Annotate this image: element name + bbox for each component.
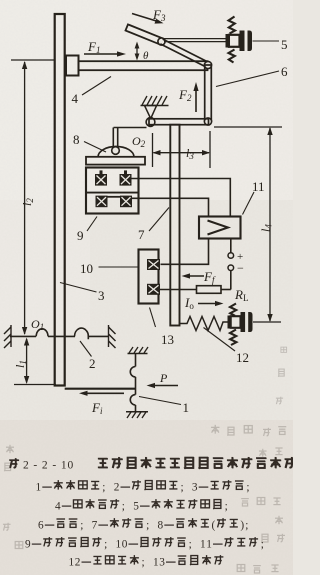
svg-text:;: ; [245, 520, 248, 532]
link bar J1-J2 [163, 39, 210, 63]
wire - terminal down [230, 271, 232, 290]
lever arm 4 [79, 61, 208, 70]
F1 arrow [84, 53, 120, 55]
screw hatch top [229, 17, 236, 34]
svg-text:−: − [237, 261, 244, 275]
svg-text:3: 3 [192, 482, 198, 494]
svg-text:2 - 2 - 10: 2 - 2 - 10 [23, 460, 74, 472]
resistor RL [197, 286, 222, 294]
joint J1 [158, 38, 165, 45]
pivot O2 circle [146, 118, 155, 127]
zero screw [228, 316, 231, 329]
svg-text:1: 1 [183, 400, 190, 415]
wire transformer bottom to amplifier [132, 198, 209, 216]
secondary lever 7 : vertical arm [170, 125, 179, 326]
svg-text:2: 2 [89, 356, 96, 371]
l3 left tick [152, 133, 154, 167]
l2 dimension line [24, 62, 26, 334]
secondary lever 7 : right bar [149, 119, 209, 125]
l3 dimension line [154, 152, 210, 154]
secondary lever 7 : left arm [114, 127, 147, 129]
svg-text:0: 0 [122, 539, 128, 551]
seal diaphragm bump right (2) [75, 328, 89, 339]
svg-text:;: ; [142, 557, 145, 569]
joint J3 [204, 118, 211, 125]
diaphragm bottom anchor hatch [126, 411, 148, 413]
armature hanger link [112, 128, 114, 149]
Fi arrow [84, 392, 124, 394]
armature dome 8 [98, 147, 134, 158]
armature plate [86, 157, 145, 165]
svg-text:1: 1 [69, 557, 75, 569]
zero spring 12 [180, 317, 228, 331]
svg-text:2: 2 [75, 557, 81, 569]
svg-text:;: ; [225, 501, 228, 513]
range adjusting screw 5 [226, 34, 229, 48]
svg-text:;: ; [246, 482, 249, 494]
svg-text:3: 3 [159, 557, 165, 569]
pivot O2 triangle [145, 106, 157, 119]
svg-text:6: 6 [281, 64, 288, 79]
svg-text:13: 13 [161, 332, 174, 347]
l4 bottom tick [253, 321, 281, 323]
svg-text:): ) [240, 520, 244, 532]
svg-text:θ: θ [143, 50, 149, 62]
Io arrow [198, 303, 219, 305]
left wall hatch [4, 325, 11, 348]
svg-text:1: 1 [36, 482, 42, 494]
svg-text:8: 8 [73, 132, 80, 147]
seal diaphragm bump left [36, 329, 48, 337]
zero screw hatch top [230, 304, 236, 316]
O1 baseline [10, 335, 36, 337]
svg-text:7: 7 [92, 520, 98, 532]
svg-text:3: 3 [98, 288, 105, 303]
pivot O2 support hatch [142, 96, 167, 105]
screw hatch bottom [229, 50, 235, 63]
svg-text:;: ; [104, 539, 107, 551]
theta dimension [136, 44, 138, 58]
ghost bleed-through marks [3, 347, 287, 573]
svg-text:10: 10 [80, 261, 93, 276]
l1 bottom tick [14, 384, 56, 386]
svg-text:;: ; [261, 539, 264, 551]
wire transformer top to amplifier [132, 179, 231, 217]
+ terminal [228, 253, 234, 259]
svg-text:;: ; [189, 539, 192, 551]
zero screw hatch bottom [230, 330, 236, 346]
svg-text:1: 1 [200, 539, 206, 551]
l1 dimension line [26, 339, 28, 383]
F3 arrow [132, 14, 158, 22]
svg-text:;: ; [80, 520, 83, 532]
svg-text:2: 2 [114, 482, 120, 494]
svg-text:12: 12 [236, 350, 249, 365]
svg-text:;: ; [102, 482, 105, 494]
l4 dimension line [269, 128, 271, 321]
wire coil to resistor [160, 289, 197, 291]
svg-text:;: ; [181, 482, 184, 494]
svg-text:(: ( [212, 520, 216, 532]
svg-text:P: P [159, 371, 168, 385]
F3 bar (vector mechanism input) [125, 24, 163, 44]
svg-text:8: 8 [158, 520, 164, 532]
svg-text:1: 1 [153, 557, 159, 569]
svg-text:;: ; [122, 501, 125, 513]
svg-text:1: 1 [116, 539, 122, 551]
F2 arrow [195, 87, 197, 112]
armature joint circle [112, 147, 120, 155]
measuring diaphragm 1 [135, 354, 137, 367]
coil squares [95, 170, 132, 207]
right wall hatch [109, 325, 116, 348]
bottom link wire [65, 388, 136, 390]
svg-text:1: 1 [206, 539, 212, 551]
diaphragm top anchor hatch [128, 353, 148, 355]
svg-text:4: 4 [72, 91, 79, 106]
l4 top tick [214, 126, 282, 128]
differential transformer 9 box [86, 168, 139, 214]
leader 5 [253, 40, 280, 42]
P arrow [151, 385, 178, 387]
- terminal [228, 265, 234, 271]
l2 dimension top tick [11, 59, 55, 61]
svg-text:11: 11 [252, 179, 265, 194]
Ff arrow [186, 275, 204, 277]
svg-text:5: 5 [133, 501, 139, 513]
wire amp to + terminal [230, 239, 232, 253]
svg-text:5: 5 [281, 37, 288, 52]
svg-text:9: 9 [25, 539, 31, 551]
svg-text:;: ; [146, 520, 149, 532]
svg-text:7: 7 [138, 227, 145, 242]
screw 5 shaft [164, 38, 226, 40]
svg-text:4: 4 [55, 501, 61, 513]
svg-text:9: 9 [77, 228, 84, 243]
main lever 3 [55, 14, 65, 386]
svg-text:6: 6 [38, 520, 44, 532]
feedback coil 10 squares [147, 259, 160, 270]
amplifier 11 box [199, 217, 241, 239]
joint J2 [204, 61, 211, 68]
magnet 13 box [139, 250, 159, 304]
l3 right tick [209, 131, 211, 168]
wire amp to feedback coil [161, 239, 209, 265]
connector block [66, 56, 79, 76]
label 6 leader [216, 71, 279, 87]
connecting rod 6 [205, 65, 212, 121]
